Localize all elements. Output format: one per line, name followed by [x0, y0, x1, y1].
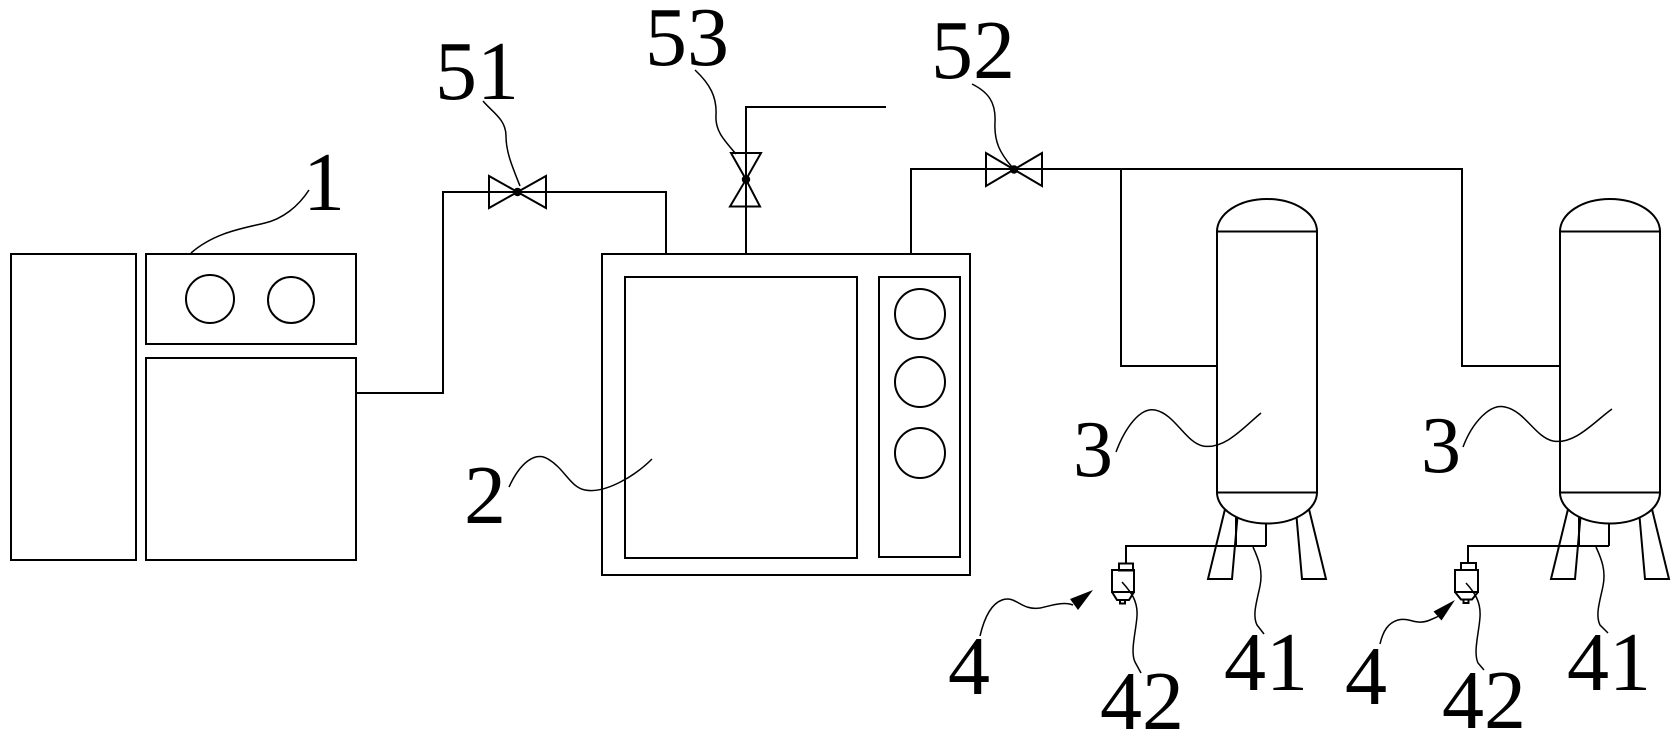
furnace 2 panel knob bottom	[895, 428, 945, 478]
leader for label 3 (first)	[1116, 410, 1261, 452]
gas source unit 1 : control head box	[146, 254, 356, 344]
tank 3 (second) legs left	[1551, 505, 1581, 579]
svg-text:42: 42	[1442, 654, 1526, 737]
tank 3 (first) top dome	[1217, 199, 1317, 232]
gas source unit 1 : side cabinet	[11, 254, 136, 560]
furnace 2 : outer shell	[602, 254, 970, 575]
svg-text:52: 52	[931, 4, 1015, 97]
wire from unit 1 outlet to valve 51 and furnace 2 inlet	[356, 192, 666, 393]
tank 3 (first) legs left	[1208, 505, 1238, 579]
svg-text:4: 4	[1345, 630, 1387, 723]
collector 42 (first) body	[1112, 570, 1134, 592]
leader lines	[191, 70, 1612, 673]
svg-text:3: 3	[1421, 402, 1461, 490]
valve 51 body (bowtie)	[489, 176, 546, 208]
furnace 2 : right control panel	[879, 277, 960, 557]
leader for label 41 (second)	[1596, 547, 1608, 633]
exhaust pipe with valve 53 from furnace 2 top	[746, 107, 886, 253]
svg-text:1: 1	[303, 136, 345, 229]
collector 42 (second) neck	[1461, 563, 1476, 570]
tank 3 (second) bottom dome	[1560, 493, 1660, 524]
leader for label 52	[972, 84, 1012, 167]
gauge circle right on unit 1	[268, 277, 314, 323]
furnace 2 panel knob top	[895, 289, 945, 339]
tank 3 (first) legs right	[1296, 505, 1326, 579]
leader for label 4 (first)	[980, 599, 1073, 636]
leader for label 51	[483, 101, 520, 186]
valve 51 stem dot	[514, 189, 520, 195]
drain pipe from tank 3 (first) to collector 42	[1126, 546, 1266, 563]
leader for label 3 (second)	[1463, 406, 1612, 447]
tank 3 (second) legs right	[1639, 505, 1669, 579]
tank 3 (second) bottom outlet stub sides	[1578, 505, 1580, 546]
svg-text:4: 4	[948, 620, 990, 713]
collector 42 (second) nozzle nub	[1464, 600, 1469, 604]
collector 42 (first) nozzle nub	[1120, 600, 1125, 604]
furnace 2 panel knob middle	[895, 357, 945, 407]
leader for label 2	[509, 457, 652, 491]
tank 3 (second) body	[1560, 232, 1660, 493]
tank 3 (first) bottom dome	[1217, 493, 1317, 524]
svg-text:53: 53	[645, 0, 729, 84]
valve 52 stem dot	[1011, 166, 1017, 172]
arrowhead for label 4 (second)	[1434, 600, 1456, 621]
leader for label 41 (first)	[1253, 547, 1264, 634]
leader for label 42 (first)	[1122, 582, 1141, 673]
furnace 2 : inner chamber	[625, 277, 857, 558]
collector 42 (first) funnel	[1112, 592, 1134, 600]
collector 42 (second) body	[1455, 570, 1478, 592]
valve 52 body (bowtie)	[986, 153, 1042, 186]
valve 53 stem dot	[743, 176, 749, 182]
svg-text:51: 51	[435, 25, 519, 118]
svg-text:41: 41	[1567, 616, 1651, 709]
svg-text:3: 3	[1073, 406, 1113, 494]
drain pipe from tank 3 (second) to collector 42	[1468, 546, 1609, 563]
valve 53 body (vertical bowtie)	[730, 153, 761, 207]
svg-text:42: 42	[1100, 655, 1184, 737]
tank 3 (first) bottom outlet stub sides	[1235, 505, 1237, 546]
leader for label 4 (second)	[1380, 617, 1438, 645]
outlet pipe from furnace 2 through valve 52 to tanks	[911, 169, 1560, 366]
gauge circle left on unit 1	[186, 275, 234, 323]
collector 42 (second) funnel	[1455, 592, 1478, 600]
leader for label 1	[191, 190, 309, 253]
leader for label 42 (second)	[1466, 583, 1484, 670]
svg-text:2: 2	[464, 449, 506, 542]
svg-text:41: 41	[1224, 616, 1308, 709]
leader for label 53	[695, 70, 736, 154]
branch pipe to tank 3 (first)	[1121, 169, 1217, 366]
tank 3 (first) body	[1217, 232, 1317, 493]
collector 42 (first) neck	[1119, 564, 1133, 571]
arrowhead for label 4 (first)	[1070, 590, 1093, 610]
gas source unit 1 : lower body box	[146, 358, 356, 560]
tank 3 (second) top dome	[1560, 199, 1660, 232]
